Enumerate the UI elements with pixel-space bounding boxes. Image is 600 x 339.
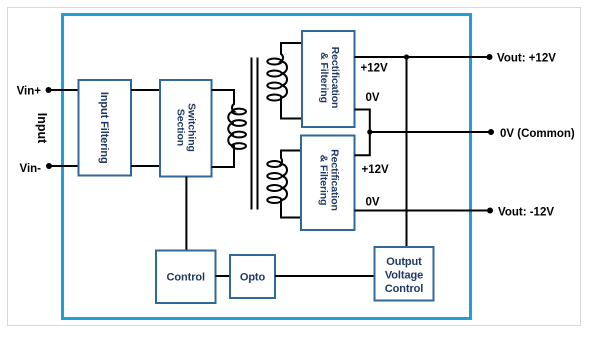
wire Vin+ lead (48, 89, 79, 91)
wire input filtering to switching (bottom) (131, 165, 160, 167)
transformer core (252, 58, 258, 210)
svg-text:Control: Control (167, 272, 205, 284)
svg-text:Opto: Opto (240, 272, 266, 284)
svg-text:Input: Input (35, 113, 49, 144)
svg-text:Vout: -12V: Vout: -12V (498, 207, 554, 219)
block Rectification & Filtering (upper) (302, 31, 355, 127)
svg-text:Vout: +12V: Vout: +12V (497, 53, 556, 65)
svg-text:0V: 0V (366, 92, 380, 104)
svg-text:Input Filtering: Input Filtering (98, 92, 110, 164)
svg-text:+12V: +12V (361, 63, 389, 75)
wire 0V common output (370, 131, 491, 133)
svg-text:0V (Common): 0V (Common) (500, 128, 575, 140)
block Switching Section (160, 80, 212, 177)
block Input Filtering (79, 80, 132, 176)
svg-text:Vin+: Vin+ (17, 86, 42, 98)
node 0V common terminal (488, 129, 494, 135)
block Rectification & Filtering (lower) (301, 136, 355, 231)
block Opto (230, 255, 275, 298)
block Control (156, 251, 216, 304)
svg-text:+12V: +12V (362, 164, 390, 176)
node junction 0V common (367, 129, 372, 134)
node Vin+ terminal (46, 87, 52, 93)
node Vout+12 terminal (487, 54, 493, 60)
wire control to opto (216, 275, 231, 277)
node Vin- terminal (46, 163, 52, 169)
wire +12V output rail (upper) (355, 56, 490, 58)
transformer secondary winding L2 (upper) (267, 43, 302, 119)
svg-text:SwitchingSection: SwitchingSection (175, 103, 198, 152)
wire Vin- lead (49, 165, 79, 167)
svg-text:Vin-: Vin- (19, 163, 41, 175)
wire opto to output voltage control (275, 275, 375, 277)
wire switching section to control (185, 177, 187, 251)
wire -12V output (lower 0V) (355, 210, 491, 212)
wire 0V bracket joining upper 0V and lower +12V (355, 110, 370, 156)
wire input filtering to switching (top) (131, 89, 160, 91)
node Vout-12 terminal (487, 208, 493, 214)
svg-text:OutputVoltageControl: OutputVoltageControl (385, 256, 423, 295)
transformer secondary winding L3 (lower) (267, 151, 301, 218)
block Output Voltage Control (375, 247, 434, 301)
svg-text:0V: 0V (366, 197, 380, 209)
svg-text:Rectification& Filtering: Rectification& Filtering (317, 149, 340, 211)
enclosure frame (power supply boundary) (63, 15, 471, 319)
wire feedback rail to output voltage control (406, 57, 408, 247)
transformer primary winding L1 (212, 90, 247, 167)
svg-text:Rectification& Filtering: Rectification& Filtering (318, 47, 341, 109)
node junction +12V rail (404, 54, 409, 59)
